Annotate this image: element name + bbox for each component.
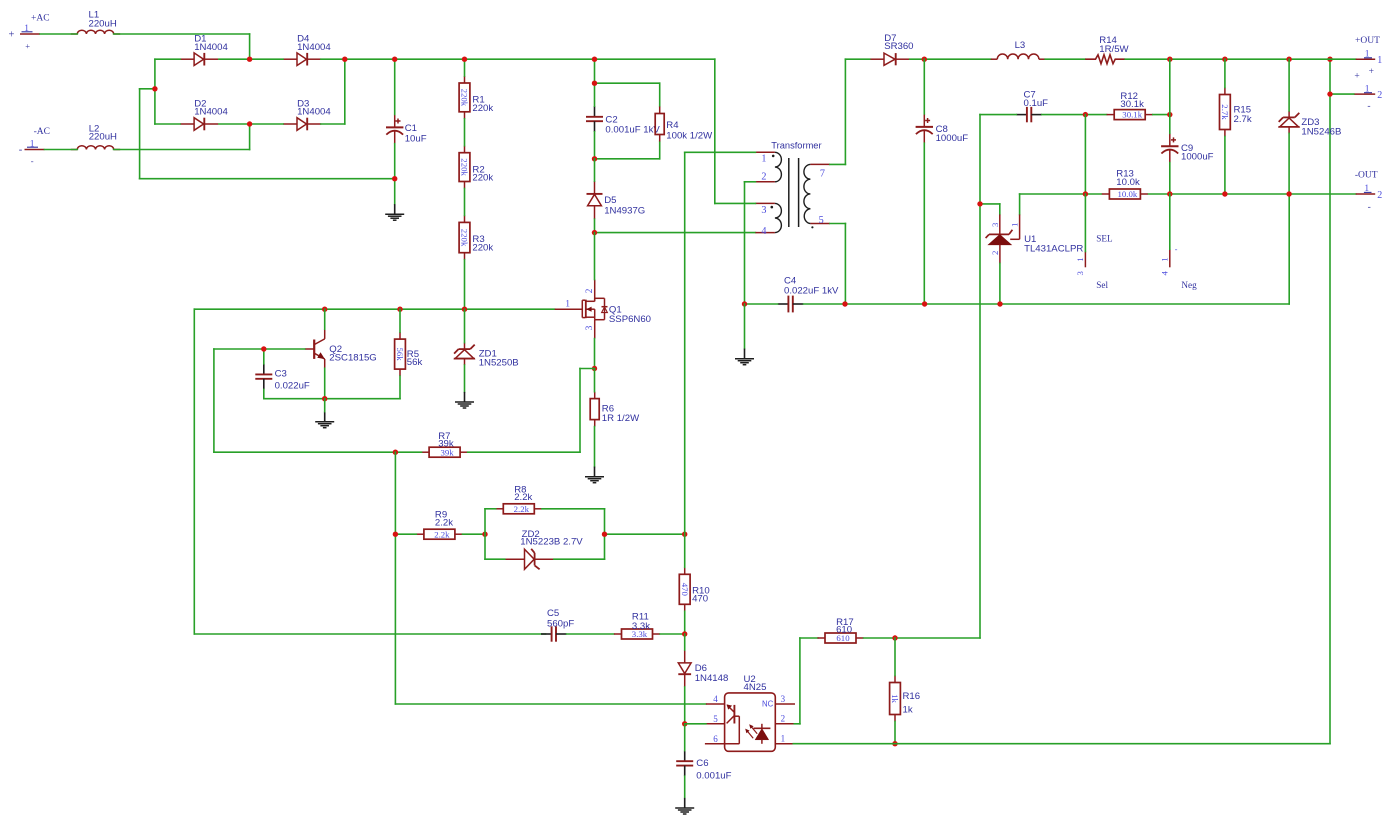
svg-text:2: 2 [990, 251, 1000, 255]
svg-text:0.1uF: 0.1uF [1024, 98, 1049, 109]
junction [392, 57, 397, 62]
wire [714, 59, 716, 203]
transformer T1 [755, 140, 830, 237]
connector Neg [1160, 245, 1198, 290]
svg-text:470: 470 [680, 583, 690, 597]
zener diode ZD2 [505, 529, 584, 570]
svg-text:5: 5 [819, 215, 824, 226]
capacitor C7 [1016, 90, 1048, 123]
port -AC [19, 127, 50, 166]
resistor R14 [1085, 35, 1129, 64]
wire [468, 451, 580, 453]
wire [980, 114, 1016, 116]
wire [1045, 58, 1085, 60]
wire [155, 58, 180, 60]
resistor R12 [1107, 91, 1153, 120]
svg-text:-: - [19, 144, 23, 155]
svg-text:1: 1 [761, 154, 766, 165]
wire [1020, 193, 1102, 195]
wire [1330, 93, 1354, 95]
wire [394, 59, 396, 114]
junction [592, 57, 597, 62]
svg-text:R16: R16 [903, 691, 921, 702]
junction [922, 57, 927, 62]
svg-text:-AC: -AC [34, 127, 50, 137]
junction [1167, 57, 1172, 62]
wire [594, 339, 596, 369]
svg-text:-: - [1368, 203, 1371, 213]
svg-text:1k: 1k [890, 694, 900, 703]
svg-text:30.1k: 30.1k [1120, 99, 1144, 110]
svg-text:220uH: 220uH [89, 18, 117, 29]
wire [399, 376, 401, 399]
svg-text:1: 1 [30, 140, 35, 150]
svg-text:0.001uF: 0.001uF [696, 770, 731, 781]
wire [264, 398, 400, 400]
wire [794, 723, 800, 725]
svg-text:220k: 220k [472, 173, 493, 184]
svg-text:0.022uF 1kV: 0.022uF 1kV [784, 285, 839, 296]
resistor R11 [614, 612, 660, 640]
wire [604, 509, 606, 534]
wire [594, 427, 596, 467]
wire [660, 633, 685, 635]
resistor R7 [422, 431, 468, 457]
wire [324, 399, 326, 412]
wire [219, 58, 283, 60]
wire [894, 722, 896, 744]
junction [682, 532, 687, 537]
svg-text:+: + [9, 29, 15, 40]
svg-text:SEL: SEL [1096, 233, 1113, 243]
capacitor C9 [1161, 133, 1214, 162]
wire [464, 189, 466, 216]
wire [464, 119, 466, 146]
wire [579, 369, 581, 453]
ground (R6) [585, 467, 604, 483]
junction [462, 57, 467, 62]
junction [397, 307, 402, 312]
wire [463, 533, 486, 535]
svg-text:-OUT: -OUT [1355, 170, 1378, 180]
diode D7 [870, 33, 914, 65]
junction [922, 301, 927, 306]
junction [997, 301, 1002, 306]
wire [155, 123, 180, 125]
wire [800, 637, 818, 639]
wire [395, 533, 416, 535]
wire [745, 303, 778, 305]
svg-text:560pF: 560pF [547, 619, 574, 630]
wire [605, 533, 685, 535]
wire [485, 508, 496, 510]
junction [892, 741, 897, 746]
wire [485, 558, 505, 560]
junction [977, 201, 982, 206]
wire [799, 638, 801, 724]
port +AC [9, 14, 50, 52]
svg-text:Transformer: Transformer [771, 140, 821, 150]
wire [1084, 115, 1086, 194]
junction [322, 307, 327, 312]
zener diode ZD1 [454, 343, 519, 369]
wire [844, 224, 846, 305]
wire [594, 132, 596, 159]
junction [592, 366, 597, 371]
junction [1286, 57, 1291, 62]
wire [263, 389, 265, 398]
svg-text:1000uF: 1000uF [1181, 152, 1214, 163]
junction [1167, 112, 1172, 117]
wire [194, 633, 545, 635]
junction [247, 121, 252, 126]
wire long right drop (C7 net) [979, 115, 981, 638]
svg-text:C3: C3 [275, 369, 287, 380]
svg-text:470: 470 [692, 594, 708, 605]
wire [114, 33, 250, 35]
wire [980, 203, 1000, 205]
wire [140, 178, 395, 180]
svg-text:2: 2 [1377, 190, 1382, 201]
resistor R8 [496, 485, 542, 514]
wire [542, 508, 605, 510]
wire [1169, 59, 1171, 133]
ground (Q2 emitter) [315, 412, 334, 428]
svg-text:3: 3 [781, 694, 786, 704]
wire [580, 368, 595, 370]
svg-text:2.7k: 2.7k [1234, 114, 1252, 125]
wire [595, 82, 660, 84]
svg-text:NC: NC [762, 700, 774, 709]
wire transformer pin 7 [830, 163, 846, 165]
zener diode ZD3 [1278, 111, 1341, 138]
resistor R5 [395, 332, 423, 376]
ground (primary) [735, 349, 754, 365]
wire [139, 89, 141, 179]
capacitor C3 [255, 364, 310, 392]
wire [684, 724, 686, 751]
junction [482, 532, 487, 537]
svg-text:10.0k: 10.0k [1116, 177, 1140, 188]
wire U2 pin1 to +OUT pin2 net [793, 743, 1330, 745]
svg-text:1N4004: 1N4004 [194, 107, 228, 118]
svg-text:2.7k: 2.7k [1220, 104, 1230, 120]
wire [395, 703, 706, 705]
wire [554, 558, 605, 560]
wire [594, 369, 596, 392]
svg-text:610: 610 [836, 625, 852, 636]
wire [1019, 194, 1021, 215]
inductor L2 [71, 124, 120, 150]
junction [1167, 191, 1172, 196]
resistor R10 [679, 567, 709, 611]
resistor R17 [817, 617, 863, 643]
junction [682, 631, 687, 636]
wire left drop to C5 [193, 309, 195, 634]
junction [1327, 57, 1332, 62]
wire transformer pin 1 [685, 151, 756, 153]
wire [684, 687, 686, 724]
svg-text:Neg: Neg [1181, 280, 1197, 290]
wire [484, 534, 486, 559]
svg-text:220k: 220k [460, 229, 470, 247]
wire [344, 59, 346, 124]
svg-text:1: 1 [1075, 257, 1085, 261]
svg-text:220k: 220k [460, 158, 470, 176]
wire [464, 260, 466, 310]
wire [594, 83, 596, 106]
svg-text:5: 5 [713, 714, 718, 724]
svg-text:220k: 220k [472, 103, 493, 114]
svg-text:2.2k: 2.2k [514, 492, 532, 503]
svg-text:3: 3 [990, 222, 1000, 227]
svg-text:Sel: Sel [1096, 280, 1108, 290]
wire [604, 534, 606, 559]
resistor R1 [459, 76, 493, 119]
wire [595, 158, 660, 160]
svg-text:1k: 1k [903, 704, 913, 715]
wire long drop to U2 pin4 [394, 452, 396, 704]
diode D2 [180, 98, 228, 130]
svg-text:+OUT: +OUT [1355, 36, 1380, 46]
svg-text:L3: L3 [1015, 40, 1026, 51]
svg-text:1N4937G: 1N4937G [604, 205, 645, 216]
resistor R9 [416, 509, 462, 539]
svg-text:SSP6N60: SSP6N60 [609, 314, 651, 325]
wire [923, 143, 925, 304]
diode D4 [283, 34, 331, 66]
svg-text:1: 1 [1160, 257, 1170, 261]
resistor R3 [459, 215, 493, 259]
wire [114, 149, 250, 151]
svg-text:TL431ACLPR: TL431ACLPR [1024, 244, 1083, 255]
junction [602, 532, 607, 537]
wire [464, 365, 466, 392]
junction [1083, 191, 1088, 196]
ground [385, 204, 404, 220]
wire [923, 59, 925, 114]
wire [1084, 194, 1086, 252]
junction [1222, 57, 1227, 62]
wire [321, 123, 345, 125]
wire to transformer pin 4 [595, 232, 756, 234]
wire [321, 58, 345, 60]
svg-text:2: 2 [1377, 90, 1382, 101]
wire [324, 368, 326, 398]
resistor R4 [655, 107, 713, 142]
wire [213, 349, 215, 452]
wire transformer pin 5 [830, 223, 846, 225]
svg-text:+AC: +AC [31, 14, 50, 24]
wire [1288, 194, 1290, 304]
svg-text:220k: 220k [460, 89, 470, 107]
wire [154, 59, 156, 124]
svg-text:3: 3 [584, 325, 594, 330]
junction [682, 721, 687, 726]
resistor R16 [890, 676, 921, 722]
wire [1288, 59, 1290, 111]
transistor Q1 (MOSFET) [555, 280, 651, 339]
resistor R15 [1220, 88, 1252, 137]
wire [249, 124, 251, 150]
svg-text:2: 2 [584, 288, 594, 293]
inductor L3 [991, 40, 1046, 59]
svg-text:+: + [25, 41, 30, 51]
wire [464, 309, 466, 342]
wire [1042, 114, 1107, 116]
wire [324, 309, 326, 329]
svg-text:3: 3 [1075, 271, 1085, 276]
wire [1288, 133, 1290, 194]
port +OUT [1354, 36, 1382, 112]
wire [40, 33, 77, 35]
svg-text:1N4004: 1N4004 [297, 107, 331, 118]
svg-text:2: 2 [761, 172, 766, 183]
svg-text:1N5223B 2.7V: 1N5223B 2.7V [520, 537, 583, 548]
svg-text:1N4004: 1N4004 [297, 42, 331, 53]
svg-text:4: 4 [713, 694, 718, 704]
wire [219, 123, 283, 125]
svg-text:4: 4 [1160, 271, 1170, 276]
svg-text:3.3k: 3.3k [632, 621, 650, 632]
svg-text:SR360: SR360 [884, 41, 913, 52]
wire [685, 723, 706, 725]
junction [342, 57, 347, 62]
wire gate line [194, 308, 554, 310]
junction [393, 532, 398, 537]
wire [594, 159, 596, 181]
wire [1169, 163, 1171, 194]
wire [394, 144, 396, 204]
wire [140, 88, 155, 90]
shunt regulator U1 [986, 215, 1084, 264]
wire [864, 637, 980, 639]
wire main rail [345, 58, 715, 60]
svg-text:1R/5W: 1R/5W [1099, 44, 1129, 55]
svg-text:2: 2 [781, 714, 786, 724]
wire [684, 611, 686, 634]
wire [1224, 59, 1226, 87]
junction [152, 86, 157, 91]
wire [659, 83, 661, 106]
wire [684, 534, 686, 567]
wire transformer pin 2 [745, 181, 756, 183]
svg-text:2.2k: 2.2k [514, 504, 530, 514]
wire [684, 776, 686, 798]
svg-text:2.2k: 2.2k [435, 517, 453, 528]
junction [842, 301, 847, 306]
svg-text:3: 3 [761, 205, 766, 216]
wire [684, 634, 686, 650]
junction [462, 307, 467, 312]
capacitor C2 [586, 106, 660, 136]
junction [892, 635, 897, 640]
capacitor C5 [541, 608, 574, 642]
svg-text:56k: 56k [395, 347, 405, 361]
svg-text:1N5246B: 1N5246B [1301, 127, 1341, 138]
svg-text:56k: 56k [407, 357, 423, 368]
port -OUT [1355, 170, 1382, 212]
capacitor C1 [386, 114, 427, 144]
transistor Q2 [305, 329, 377, 368]
capacitor C4 [778, 276, 839, 313]
svg-text:+: + [1354, 71, 1359, 81]
wire [659, 142, 661, 159]
svg-text:0.001uF 1kV: 0.001uF 1kV [605, 125, 660, 136]
wire minus rail [804, 303, 1290, 305]
svg-text:1N5250B: 1N5250B [479, 357, 519, 368]
svg-text:6: 6 [713, 734, 718, 744]
svg-text:+: + [1369, 67, 1374, 77]
wire [263, 349, 265, 364]
junction [592, 81, 597, 86]
junction [247, 57, 252, 62]
svg-text:220k: 220k [472, 242, 493, 253]
wire [214, 451, 422, 453]
junction [742, 301, 747, 306]
junction [1327, 91, 1332, 96]
svg-text:2SC1815G: 2SC1815G [329, 352, 376, 363]
wire [999, 263, 1001, 304]
junction [322, 396, 327, 401]
diode D6 [678, 650, 728, 687]
wire [594, 219, 596, 232]
wire [1153, 114, 1170, 116]
svg-text:4: 4 [761, 226, 766, 237]
inductor L1 [71, 9, 120, 34]
ground (C6) [675, 798, 694, 814]
capacitor C6 [676, 751, 731, 782]
wire [844, 59, 846, 164]
diode D5 [587, 181, 646, 219]
svg-text:10uF: 10uF [405, 134, 427, 145]
wire [464, 59, 466, 76]
svg-text:100k 1/2W: 100k 1/2W [666, 130, 713, 141]
svg-text:1: 1 [1377, 55, 1382, 66]
wire transformer pin 3 [715, 202, 756, 204]
junction [392, 176, 397, 181]
ground (ZD1) [455, 392, 474, 408]
svg-text:-: - [31, 156, 34, 166]
wire long drop from pin 1 [684, 152, 686, 534]
wire [744, 304, 746, 349]
resistor R2 [459, 146, 493, 189]
svg-text:1N4148: 1N4148 [695, 673, 729, 684]
wire [1224, 137, 1226, 195]
diode D1 [180, 34, 228, 66]
wire [999, 204, 1001, 215]
connector Sel [1075, 233, 1113, 290]
svg-text:1R 1/2W: 1R 1/2W [602, 413, 640, 424]
svg-text:39k: 39k [438, 439, 454, 450]
diode D3 [283, 98, 331, 130]
svg-text:1: 1 [565, 298, 570, 309]
svg-text:-: - [1367, 102, 1370, 112]
wire right-edge vertical [1329, 59, 1331, 744]
wire [567, 633, 614, 635]
svg-text:4N25: 4N25 [744, 682, 767, 693]
wire [910, 58, 991, 60]
svg-text:1: 1 [781, 734, 786, 744]
junction [592, 230, 597, 235]
wire [894, 638, 896, 676]
svg-text:10.0k: 10.0k [1118, 189, 1138, 199]
capacitor C8 [916, 114, 969, 144]
wire Q2 base [214, 348, 305, 350]
junction [592, 156, 597, 161]
wire [484, 509, 486, 534]
wire [845, 58, 869, 60]
